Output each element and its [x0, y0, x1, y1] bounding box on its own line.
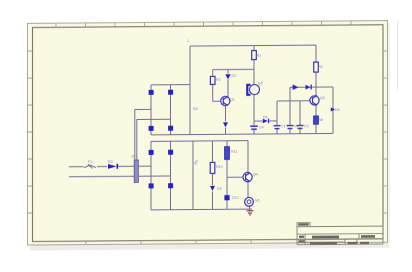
svg-text:D5: D5 [263, 115, 268, 119]
svg-text:Q3: Q3 [320, 96, 325, 100]
svg-text:D10: D10 [232, 196, 239, 200]
svg-text:D0: D0 [108, 160, 113, 164]
svg-text:R10: R10 [216, 165, 223, 169]
svg-text:J1: J1 [131, 155, 135, 159]
svg-text:C4: C4 [259, 126, 264, 130]
svg-text:R2: R2 [319, 65, 324, 69]
svg-text:R11: R11 [231, 150, 237, 154]
svg-text:D2: D2 [232, 74, 237, 78]
svg-text:R1: R1 [257, 54, 262, 58]
svg-text:C2: C2 [294, 124, 299, 128]
svg-text:D6: D6 [335, 108, 340, 112]
svg-text:Q2: Q2 [258, 82, 263, 86]
svg-text:F1: F1 [88, 160, 92, 164]
svg-text:R3: R3 [216, 78, 221, 82]
svg-text:D9: D9 [217, 187, 222, 191]
svg-text:Q4: Q4 [253, 173, 258, 177]
svg-text:Q1: Q1 [230, 98, 235, 102]
svg-text:C1: C1 [281, 124, 286, 128]
svg-text:R8: R8 [319, 118, 324, 122]
svg-text:R4: R4 [193, 107, 198, 111]
svg-text:1: 1 [187, 39, 189, 43]
svg-text:M1: M1 [255, 199, 260, 203]
svg-text:C3: C3 [304, 124, 309, 128]
